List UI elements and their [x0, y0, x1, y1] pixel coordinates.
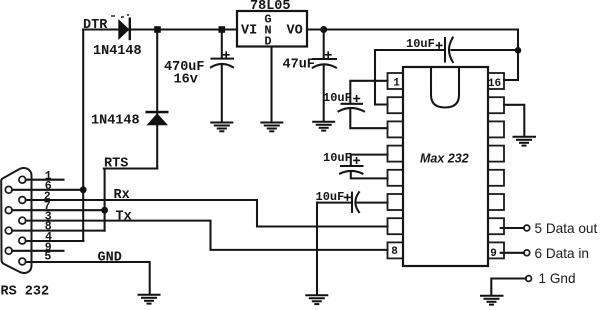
svg-text:1 Gnd: 1 Gnd — [539, 271, 576, 286]
svg-text:Tx: Tx — [116, 209, 132, 224]
svg-text:1N4148: 1N4148 — [93, 44, 142, 59]
svg-text:8: 8 — [391, 246, 398, 258]
svg-text:DTR: DTR — [83, 18, 108, 33]
svg-text:47uF: 47uF — [283, 58, 315, 73]
svg-text:10uF: 10uF — [323, 91, 352, 105]
svg-text:6 Data in: 6 Data in — [535, 246, 589, 261]
svg-text:10uF: 10uF — [323, 151, 352, 165]
svg-text:RS 232: RS 232 — [1, 285, 50, 300]
svg-text:RTS: RTS — [104, 157, 128, 172]
svg-text:Rx: Rx — [114, 188, 130, 203]
svg-text:10uF: 10uF — [316, 190, 345, 204]
svg-text:9: 9 — [490, 248, 497, 260]
svg-text:1N4148: 1N4148 — [91, 114, 140, 129]
svg-text:1: 1 — [393, 78, 400, 90]
svg-text:5: 5 — [44, 251, 51, 264]
svg-text:D: D — [264, 35, 271, 49]
svg-text:16: 16 — [488, 78, 501, 90]
svg-text:VO: VO — [287, 24, 303, 39]
svg-text:GND: GND — [98, 251, 122, 266]
svg-text:5 Data out: 5 Data out — [535, 221, 598, 236]
svg-text:Max 232: Max 232 — [420, 152, 469, 166]
svg-text:VI: VI — [241, 24, 257, 39]
svg-text:16v: 16v — [174, 73, 198, 88]
svg-text:10uF: 10uF — [406, 37, 435, 51]
